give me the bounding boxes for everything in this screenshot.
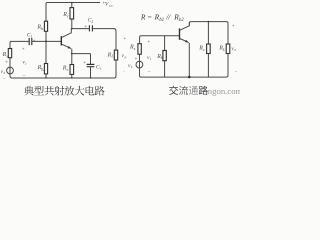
svg-text:b: b [161,55,163,60]
wire R top lead [164,36,166,51]
wire source to C1 [10,41,29,48]
node emitter-ground junction dot [188,76,191,79]
svg-text:c: c [203,47,205,52]
svg-text:−: − [3,76,6,81]
svg-text:−: − [123,69,126,74]
svg-text:−: − [235,70,238,75]
svg-text:ngon.com: ngon.com [208,86,240,96]
node rail junction Rb2 [45,77,47,79]
transistor Q2 base bar [179,28,181,39]
svg-text:b2: b2 [41,67,45,72]
wire Rc to ground (right) [207,54,209,78]
svg-text:+: + [123,36,126,42]
wire RL to ground (right) [227,54,229,76]
wire RL to ground rail [115,60,117,77]
wire R bottom lead [164,61,166,77]
resistor Rb1 [44,21,47,31]
transistor Q1 base bar [60,36,62,45]
node base junction dot [45,40,47,42]
svg-text:i: i [150,57,151,61]
svg-text:i: i [25,62,26,66]
svg-text:R: R [140,12,146,21]
svg-text:b1: b1 [41,26,45,31]
resistor Rc [70,8,74,19]
wire Rc bottom lead [71,19,73,29]
svg-text:+: + [135,56,138,62]
wire bottom ground rail (right circuit) [139,75,228,77]
wire collector to C2 [72,28,89,30]
capacitor Ce [87,63,95,65]
svg-text:o: o [125,56,127,60]
svg-text:CC: CC [109,4,114,8]
node rail junction Ce [90,77,92,79]
formula R = Rb1 // Rb2 [140,12,184,23]
wire C2 to output node [93,29,116,50]
svg-text:+: + [84,24,87,30]
svg-text:2: 2 [91,20,93,24]
wire base to Rb2 [45,41,47,63]
wire Rs to base (right) [140,36,179,44]
wire Rb1 bottom lead [45,31,47,41]
wire Rc top lead (right) [207,22,209,44]
node rail junction Rc (right) [208,21,210,23]
wire Rb2 bottom lead [45,74,47,78]
source vs (left) [7,67,14,74]
svg-text:b2: b2 [179,18,184,23]
resistor Rs (right) [138,44,141,55]
svg-text:e: e [67,67,69,72]
wire Re bottom lead [71,74,73,78]
transistor Q2 collector [180,23,189,30]
svg-text:=: = [148,13,152,22]
svg-text:+: + [147,39,150,45]
wire top rail (right circuit) [189,22,228,44]
svg-text:+: + [22,46,25,52]
capacitor C1 [28,38,30,45]
svg-text:+: + [83,60,86,66]
wire emitter to Ce [72,53,91,55]
wire Re top lead [71,54,73,65]
wire emitter drop [71,49,73,54]
wire top supply rail (left circuit) [46,3,100,6]
source vs (right) [136,61,143,68]
svg-text:o: o [234,48,236,52]
svg-text:+: + [232,23,235,29]
wire vs to Rs (right) [139,54,141,76]
node supply rail junction dot [71,2,73,4]
node rail junction Re [71,77,73,79]
wire emitter to ground (right) [188,43,190,77]
resistor Re [70,65,74,75]
node collector junction [71,28,73,30]
svg-text:+: + [5,60,8,66]
svg-text:−: − [148,69,151,75]
wire Ce top lead [90,54,92,65]
node emitter junction [71,53,73,55]
wire Rc top lead [71,3,73,8]
resistor Rc (right) [207,44,211,54]
resistor RL (right) [226,44,230,54]
caption 典型共射放大电路 [24,86,105,96]
transistor Q2 emitter [180,39,189,43]
wire Rb1 top lead [45,4,47,21]
capacitor C2 [88,25,90,31]
resistor RL (left) [114,50,117,60]
svg-text:c: c [67,13,69,18]
transistor Q1 emitter [62,44,71,48]
resistor Rb2 [44,64,47,74]
wire C1 to base [32,40,61,42]
wire bottom ground rail (left circuit) [10,76,116,78]
transistor Q1 collector [62,29,72,38]
resistor R (Rb1 par Rb2) [163,51,166,61]
svg-text:b1: b1 [159,18,164,23]
watermark 交流通路 ngon.com [169,86,178,95]
wire Ce bottom lead [90,67,92,78]
resistor Rs [8,49,11,58]
wire Rs to vs [9,58,11,76]
